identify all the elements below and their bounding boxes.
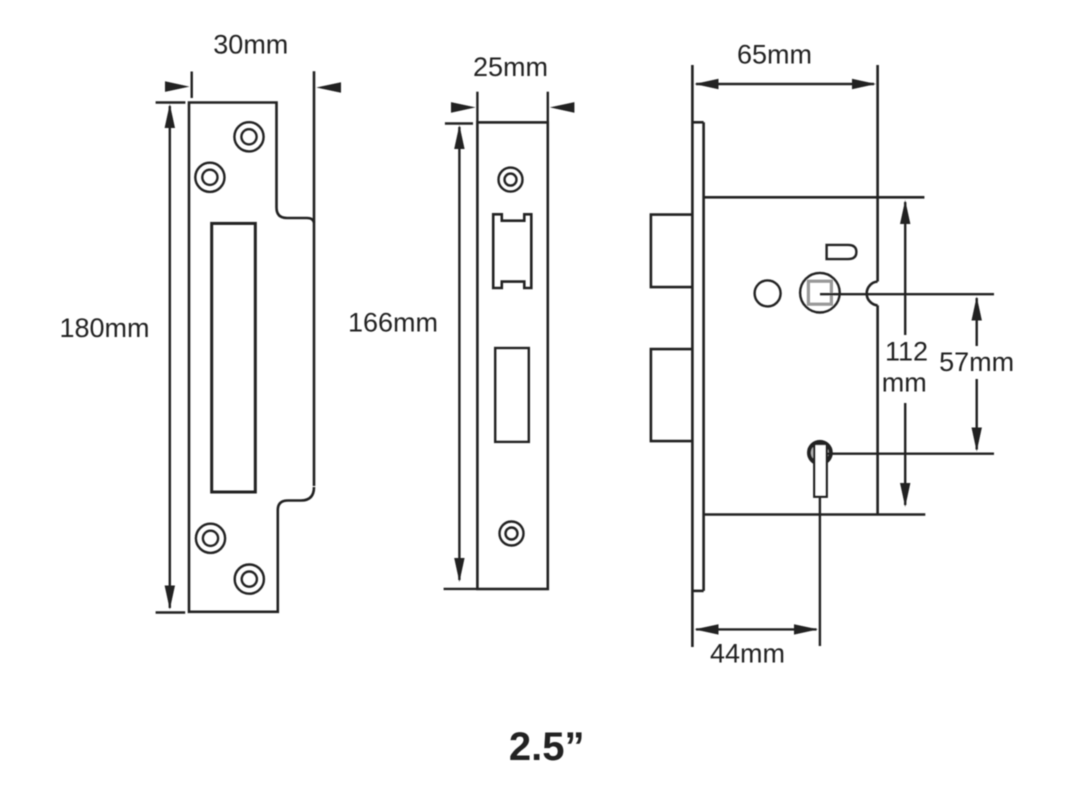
- 166mm dimension bottom tick: [444, 588, 477, 590]
- 44mm dimension line: [696, 628, 817, 630]
- fixing hole: [755, 280, 781, 306]
- follower notch: [867, 282, 878, 306]
- latch bolt box: [651, 215, 693, 288]
- 57mm dimension lower line: [976, 379, 978, 450]
- 25mm dimension tick left: [476, 92, 478, 122]
- 30mm arrow left: [165, 81, 190, 92]
- 30mm arrow right: [316, 82, 341, 93]
- 166mm arrow up: [454, 125, 464, 149]
- keyhole centre reference line: [827, 453, 994, 455]
- 112mm dimension upper line: [904, 202, 906, 335]
- 166mm dimension line: [458, 127, 460, 580]
- 180mm dimension bottom tick: [156, 611, 186, 613]
- 25mm arrow right: [550, 102, 575, 113]
- svg-text:180mm: 180mm: [59, 313, 149, 343]
- deadbolt cutout: [495, 348, 529, 442]
- deadbolt box: [651, 349, 693, 441]
- 57mm arrow up: [972, 297, 982, 321]
- spindle follower circle: [800, 273, 840, 313]
- svg-text:112: 112: [885, 337, 928, 367]
- 44mm arrow left: [695, 624, 719, 634]
- faceplate screw hole top: [499, 168, 523, 192]
- 44mm arrow right: [794, 624, 818, 634]
- svg-text:166mm: 166mm: [348, 308, 438, 338]
- 65mm arrow left: [695, 79, 719, 89]
- 166mm dimension top tick: [445, 122, 473, 124]
- keyhole extension line: [819, 497, 821, 646]
- svg-text:30mm: 30mm: [213, 30, 288, 60]
- 112mm arrow down: [900, 483, 910, 507]
- 25mm arrow left: [451, 102, 476, 113]
- 25mm dimension tick right: [547, 92, 549, 122]
- 57mm dimension upper line: [976, 298, 978, 346]
- svg-text:57mm: 57mm: [939, 347, 1014, 377]
- spindle follower square: [808, 281, 831, 304]
- follower centre reference line: [820, 293, 994, 295]
- screw hole bottom B: [235, 565, 264, 594]
- 112mm dimension lower line: [904, 403, 906, 505]
- lock case right edge upper: [876, 65, 879, 282]
- 180mm arrow down: [165, 586, 175, 610]
- svg-text:44mm: 44mm: [710, 639, 785, 669]
- keyhole circle: [809, 442, 831, 464]
- stop tab: [827, 245, 857, 259]
- screw hole bottom A: [196, 524, 225, 553]
- lock faceplate top cap: [692, 121, 703, 124]
- lock case top edge: [704, 196, 925, 199]
- 180mm arrow up: [165, 104, 175, 128]
- svg-text:2.5”: 2.5”: [509, 725, 585, 769]
- 112mm arrow up: [900, 200, 910, 224]
- keyhole slot: [814, 444, 826, 497]
- 180mm dimension top tick: [156, 101, 186, 103]
- 166mm arrow down: [454, 558, 464, 582]
- lock faceplate bottom cap: [692, 590, 703, 593]
- svg-text:mm: mm: [882, 368, 927, 398]
- 57mm arrow down: [972, 428, 982, 452]
- lock case bottom edge: [704, 513, 926, 516]
- lock faceplate front edge / extension line: [691, 65, 694, 647]
- lock faceplate back edge / case left edge: [702, 122, 705, 591]
- strike cutout: [212, 223, 256, 492]
- strike plate lip right edge: [313, 71, 316, 486]
- strike plate outline: [189, 103, 314, 612]
- faceplate outline: [477, 122, 547, 589]
- faceplate screw hole bottom: [500, 522, 524, 546]
- svg-text:65mm: 65mm: [737, 40, 812, 70]
- 65mm arrow right: [852, 79, 876, 89]
- svg-text:25mm: 25mm: [473, 52, 548, 82]
- 180mm dimension line: [169, 106, 171, 608]
- lock case right edge lower: [876, 305, 879, 514]
- latch cutout: [493, 214, 531, 288]
- screw hole top B: [195, 163, 224, 192]
- 30mm dimension tick left: [190, 72, 192, 99]
- 65mm dimension line: [696, 83, 874, 85]
- screw hole top A: [234, 122, 263, 151]
